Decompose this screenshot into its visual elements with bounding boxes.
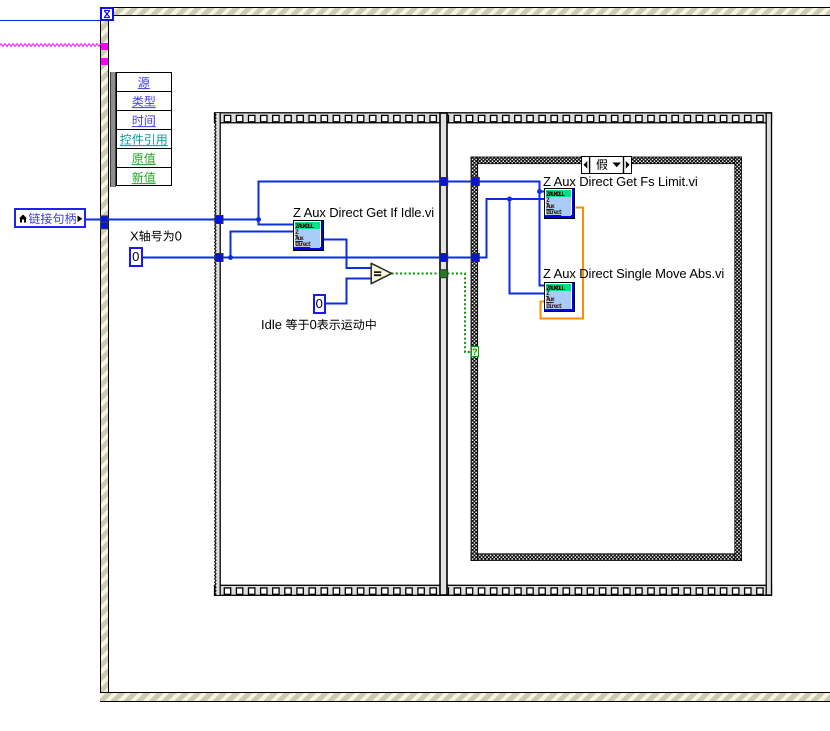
wire: link handle to sequence (blue) [86,181,544,305]
tunnel (blue) [440,178,448,186]
numeric constant 0 (X axis) [129,247,143,267]
tunnel (blue) [471,254,479,262]
flat sequence left border [216,113,221,595]
case structure right border [735,157,742,561]
case selector label ◀ 假 ▼ ▶ [581,156,632,175]
wire: panel reference (magenta wavy) [0,0,104,60]
event data node item yuanzhi [132,153,155,164]
subVI icon Z Aux Direct Get Fs Limit.vi [544,188,575,219]
comparison node: equal? [365,258,400,290]
numeric constant 0 (compare) [313,294,326,314]
event data node spine [110,72,116,187]
case structure left border [471,157,478,561]
wire junction dot [228,255,233,260]
event border tunnels (dynamic event) [101,216,108,222]
label: X轴号为0 [0,0,420,360]
tunnel (green, boolean) [440,270,448,278]
event data node item kongjian [120,134,166,145]
event data node box [116,72,173,186]
control: 链接句柄 (link handle refnum) [14,208,86,228]
wire: X axis 0 to nodes (blue) [142,198,544,294]
flat sequence frame divider [440,113,447,595]
case selector terminal ? [471,346,479,358]
wire junction dot [537,189,542,194]
event border magenta tunnel 2 [101,58,108,65]
label: Idle 等于0表示运动中 [262,319,375,330]
event structure top border [100,7,830,16]
subVI icon Z Aux Direct Get If Idle.vi [293,220,324,251]
flat sequence bottom border (film strip) [215,585,772,595]
case structure top border [471,157,742,164]
label: Z Aux Direct Get Fs Limit.vi [543,175,698,188]
tunnel (blue) [440,254,448,262]
right arrow [78,216,83,223]
flat sequence right border [766,113,771,595]
event data node item shijian [133,115,155,126]
tunnel (blue) [471,178,479,186]
wire: timeout (blue, thin) [0,20,100,21]
event structure bottom border [100,692,830,702]
wire: orange DBL wire Fs Limit to Move Abs [541,208,584,319]
wire: Get If Idle output to equals (blue) [324,239,372,269]
house icon [19,215,27,223]
flat sequence top border (film strip) [215,113,772,123]
tunnel (blue) [215,216,223,224]
subVI icon Z Aux Direct Single Move Abs.vi [544,282,575,313]
event timeout terminal (hourglass) [100,7,114,21]
event data node item leixing [132,96,155,107]
label: Z Aux Direct Get If Idle.vi [293,206,434,219]
wire junction dot [256,217,261,222]
wire: 0 constant to equals (blue) [325,279,372,305]
label: Z Aux Direct Single Move Abs.vi [543,267,724,280]
case structure bottom border [471,554,742,561]
event structure left border [100,7,109,702]
wire junction dot [507,197,512,202]
text 链接句柄 [29,213,76,224]
wire: equals result to case selector (green dotted) [392,274,471,353]
event data node item xinzhi [132,172,155,183]
tunnel (blue) [215,254,223,262]
event data node item yuan [138,77,149,88]
event border magenta tunnel 1 [101,43,108,50]
